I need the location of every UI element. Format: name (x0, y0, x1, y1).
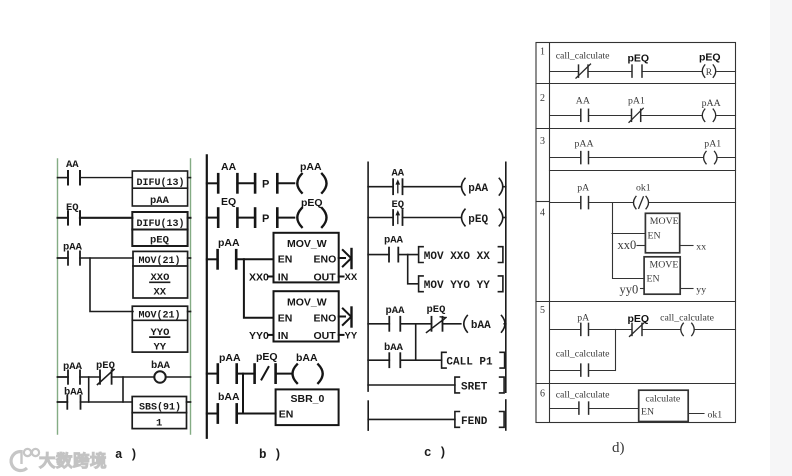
wire rung1 b (237, 182, 255, 184)
svg-text:call_calculate: call_calculate (556, 390, 610, 401)
svg-text:yy: yy (696, 285, 706, 296)
svg-text:pAA: pAA (468, 183, 488, 195)
wire parallel branch rung5 (550, 370, 616, 372)
svg-text:call_calculate: call_calculate (556, 349, 610, 360)
wire branch c rung4 (415, 324, 417, 360)
instruction [FEND] (455, 412, 504, 428)
right power rail (a) (190, 159, 192, 434)
wire rung5 a (81, 401, 133, 403)
svg-text:call_calculate: call_calculate (556, 51, 610, 62)
wire rung2 a (80, 217, 132, 219)
wire rung3 d (550, 157, 736, 159)
svg-text:pAA: pAA (386, 305, 406, 317)
left power rail (b) (206, 155, 208, 437)
ENO power-flow arrow #2 (339, 308, 352, 327)
coil pAA (c) (462, 178, 506, 195)
contact bAA (58, 395, 81, 408)
svg-text:5: 5 (540, 305, 545, 316)
svg-text:AA: AA (221, 161, 237, 173)
svg-text:DIFU(13): DIFU(13) (137, 177, 185, 189)
svg-text:1: 1 (156, 418, 162, 430)
wire OUT to XX (339, 276, 344, 278)
function block MOVE #1 (d) (645, 213, 679, 253)
coil pAA rung2 (702, 109, 715, 121)
svg-text:yy0: yy0 (620, 283, 639, 297)
right power rail segment 2 (c) (505, 400, 507, 430)
wire EN1 d rung4 (612, 233, 645, 235)
coil call_calculate rung5 (681, 323, 694, 335)
svg-text:pAA: pAA (219, 352, 241, 364)
ENO power-flow arrow #1 (339, 249, 352, 268)
svg-text:pA1: pA1 (628, 96, 645, 107)
contact call_calculate rung5 (581, 364, 589, 376)
svg-text:bAA: bAA (384, 342, 404, 354)
wire branch d rung4 (613, 203, 645, 279)
coil pEQ (b) (297, 208, 326, 227)
wire rung1 d (550, 71, 736, 73)
instruction [MOV XX0 XX] (419, 247, 503, 263)
wire branch d rung5 (615, 330, 617, 371)
function block U2 DIFU(13) pEQ (132, 212, 190, 246)
wire rung1 a (80, 177, 132, 179)
wire rung4 b (237, 373, 255, 375)
coil ok1 negated (/) (634, 196, 649, 208)
contact AA rising edge (c) (368, 179, 402, 194)
svg-text:MOV_W: MOV_W (287, 297, 327, 309)
svg-text:MOV(21): MOV(21) (139, 310, 181, 322)
svg-text:OUT: OUT (314, 330, 337, 342)
svg-text:bAA: bAA (296, 352, 318, 364)
svg-text:a ): a ) (115, 448, 138, 462)
svg-text:P: P (262, 213, 269, 225)
network divider 5/6 (536, 383, 736, 385)
contact pAA (b) (207, 250, 236, 268)
svg-text:EN: EN (278, 254, 293, 266)
wire rung3 to MOV_W EN (236, 258, 273, 260)
svg-text:ok1: ok1 (708, 410, 723, 421)
contact pEQ rung1 (632, 65, 642, 77)
coil pEQ (c) (462, 209, 506, 226)
network divider 3/4 (550, 170, 736, 172)
contact pA1 NC rung2 (629, 108, 643, 122)
svg-text:pEQ: pEQ (468, 214, 488, 226)
network divider 2/3 (536, 128, 736, 130)
svg-text:pEQ: pEQ (427, 304, 446, 316)
left power rail (a) (57, 159, 59, 434)
coil pEQ reset (R) (702, 65, 715, 77)
wire rung3 a (80, 257, 133, 259)
contact pEQ falling edge NC (c) (427, 317, 461, 333)
svg-text:pAA: pAA (218, 237, 240, 249)
svg-text:YY: YY (154, 341, 167, 353)
network divider 4/5 (536, 301, 736, 303)
contact AA (58, 171, 81, 185)
right page gutter shading (770, 0, 792, 476)
svg-text:OUT: OUT (314, 272, 337, 284)
svg-text:1: 1 (540, 47, 545, 58)
coil bAA (a) (154, 371, 165, 382)
coil bAA (b) (293, 364, 323, 383)
left power rail segment 2 (c) (367, 401, 369, 430)
wire rung2 c to coil (403, 217, 462, 219)
svg-text:XX: XX (154, 287, 167, 299)
wire branch c rung3 (408, 255, 418, 284)
contact EQ rising edge (c) (368, 210, 402, 225)
wire rung2 d (550, 115, 736, 117)
wire branch a rung3 (90, 258, 133, 312)
contact pAA rung4 (c) (368, 317, 431, 331)
svg-text:bAA: bAA (471, 320, 491, 332)
function block SBR_0 (276, 389, 339, 425)
wire rung1 c to coil (403, 186, 462, 188)
function block U4 MOV(21) YY0 YY (132, 306, 190, 352)
svg-text:bAA: bAA (218, 391, 240, 403)
instruction [SRET] (455, 377, 504, 393)
svg-text:大数跨境: 大数跨境 (39, 451, 107, 471)
function block U1 DIFU(13) pAA (132, 171, 190, 206)
svg-text:EN: EN (279, 409, 294, 421)
contact pEQ NC (98, 370, 115, 385)
contact EQ (58, 211, 81, 224)
wire branch b rung3 (244, 259, 274, 317)
svg-text:pAA: pAA (575, 139, 594, 150)
svg-text:MOV_W: MOV_W (287, 238, 327, 250)
wire branch b rung4 (242, 374, 244, 414)
wire rung6 c (368, 384, 455, 386)
svg-text:CALL P1: CALL P1 (446, 357, 493, 369)
wire yy0 to MOVE2 (641, 288, 645, 290)
svg-text:DIFU(13): DIFU(13) (137, 218, 185, 230)
contact pA rung5 (581, 323, 589, 335)
wire P to coil rung2 (277, 217, 294, 219)
svg-text:AA: AA (576, 96, 590, 107)
contact pA rung4 (581, 197, 589, 209)
wire xx0 to MOVE1 (637, 245, 645, 247)
contact pEQ NC rung5 (630, 322, 645, 336)
wire P to coil rung1 (277, 182, 294, 184)
left power rail (c) (367, 162, 369, 391)
junction vertical parallel bAA (88, 377, 90, 402)
svg-text:c ): c ) (424, 446, 447, 460)
wire rung4 to coil (112, 376, 154, 378)
svg-text:EN: EN (641, 407, 654, 418)
contact pAA (c) (368, 248, 418, 262)
svg-text:pEQ: pEQ (628, 313, 650, 325)
svg-text:MOV XXO XX: MOV XXO XX (424, 251, 490, 263)
coil pAA (b) (297, 174, 326, 193)
wire MOVE2 out (680, 288, 693, 290)
svg-text:pAA: pAA (384, 235, 404, 247)
contact AA rung2 (581, 109, 589, 121)
svg-text:IN: IN (278, 330, 289, 342)
svg-text:XXO: XXO (151, 272, 170, 284)
svg-text:bAA: bAA (151, 360, 171, 372)
wire OUT to YY (339, 334, 344, 336)
svg-text:P: P (262, 179, 269, 191)
function block calculate (d) (639, 390, 689, 421)
svg-text:SRET: SRET (461, 381, 488, 393)
svg-text:pA1: pA1 (704, 139, 721, 150)
svg-text:6: 6 (540, 389, 545, 400)
svg-text:EN: EN (647, 274, 660, 285)
svg-text:pEQ: pEQ (628, 53, 650, 65)
function block MOVE #2 (d) (644, 257, 680, 294)
svg-text:pEQ: pEQ (150, 235, 169, 247)
right power rail (c) (505, 162, 507, 392)
wire rung4 a (80, 376, 100, 378)
svg-text:FEND: FEND (461, 416, 488, 428)
contact EQ (b) (207, 209, 238, 227)
wire rung7 c (368, 418, 455, 420)
svg-text:YYO: YYO (151, 327, 170, 339)
svg-text:pA: pA (577, 183, 589, 194)
function block MOV_W #2 (274, 291, 339, 341)
wire pEQ to coil bAA (276, 373, 293, 375)
svg-text:pAA: pAA (702, 98, 721, 109)
contact AA (b) (207, 174, 238, 192)
contact call_calculate rung6 (579, 402, 589, 414)
svg-text:IN: IN (278, 272, 289, 284)
wire rung5 to SBR_0 (237, 413, 276, 415)
contact bAA (b) (207, 404, 237, 422)
svg-text:YY0: YY0 (249, 330, 269, 342)
svg-text:EN: EN (278, 312, 293, 324)
svg-text:3: 3 (540, 136, 545, 147)
svg-text:XX0: XX0 (249, 272, 269, 284)
coil pA1 rung3 (704, 151, 717, 163)
svg-text:ok1: ok1 (636, 183, 651, 194)
number column divider 3/4 (536, 201, 550, 203)
svg-text:SBS(91): SBS(91) (139, 402, 181, 414)
wire rung4 d (550, 202, 736, 204)
network table frame (536, 43, 736, 423)
svg-text:pEQ: pEQ (699, 52, 721, 64)
wire rung5 d (550, 329, 736, 331)
svg-text:ENO: ENO (314, 312, 337, 324)
svg-text:pEQ: pEQ (256, 351, 278, 363)
svg-text:MOV(21): MOV(21) (139, 255, 181, 267)
watermark logo (11, 449, 39, 471)
svg-text:2: 2 (540, 93, 545, 104)
svg-text:R: R (706, 68, 713, 78)
instruction [CALL P1] (442, 352, 505, 368)
contact pAA rung3 (581, 152, 589, 164)
svg-text:call_calculate: call_calculate (660, 313, 714, 324)
wire rung2 b (237, 217, 255, 219)
svg-text:pAA: pAA (300, 161, 322, 173)
svg-text:EN: EN (648, 231, 661, 242)
svg-text:4: 4 (540, 208, 545, 219)
contact call_calculate NC rung1 (576, 64, 591, 78)
function block MOV_W #1 (274, 233, 339, 283)
svg-text:d): d) (612, 440, 625, 456)
wire XX0 to IN (269, 276, 274, 278)
svg-text:MOVE: MOVE (650, 216, 679, 227)
svg-text:XX: XX (345, 272, 358, 283)
svg-text:pA: pA (577, 313, 589, 324)
svg-text:YY: YY (345, 331, 358, 342)
contact pAA rung4 (58, 370, 81, 383)
contact pAA (58, 251, 81, 264)
svg-text:AA: AA (66, 159, 79, 171)
wire MOVE1 out (680, 245, 693, 247)
svg-text:AA: AA (392, 168, 405, 180)
svg-text:pAA: pAA (150, 195, 170, 207)
svg-text:MOVE: MOVE (650, 260, 679, 271)
contact P rung2 (b) (255, 209, 277, 227)
svg-text:ENO: ENO (314, 254, 337, 266)
network divider 1/2 (536, 83, 736, 85)
contact pAA rung4 (b) (207, 365, 237, 383)
contact P rung1 (b) (255, 174, 277, 192)
svg-text:pEQ: pEQ (301, 197, 323, 209)
svg-text:calculate: calculate (645, 394, 680, 405)
wire coil to right rail (166, 376, 190, 378)
svg-text:b ): b ) (259, 448, 282, 462)
contact bAA (c) (368, 353, 442, 367)
function block U5 SBS(91) 1 (132, 397, 190, 429)
svg-text:EQ: EQ (221, 196, 236, 208)
wire calculate out (688, 413, 704, 415)
instruction [MOV YY0 YY] (419, 276, 503, 292)
wire rung6 d (550, 408, 639, 410)
svg-text:SBR_0: SBR_0 (291, 393, 325, 405)
function block U3 MOV(21) XX0 XX (133, 251, 191, 298)
contact pEQ NC (b) (255, 365, 276, 383)
junction vertical to SBS (122, 377, 124, 402)
wire YY0 to IN (269, 334, 274, 336)
coil bAA (c) (464, 316, 506, 333)
svg-text:xx0: xx0 (618, 238, 637, 252)
svg-text:MOV YYO YY: MOV YYO YY (424, 280, 490, 292)
svg-text:xx: xx (696, 242, 706, 253)
